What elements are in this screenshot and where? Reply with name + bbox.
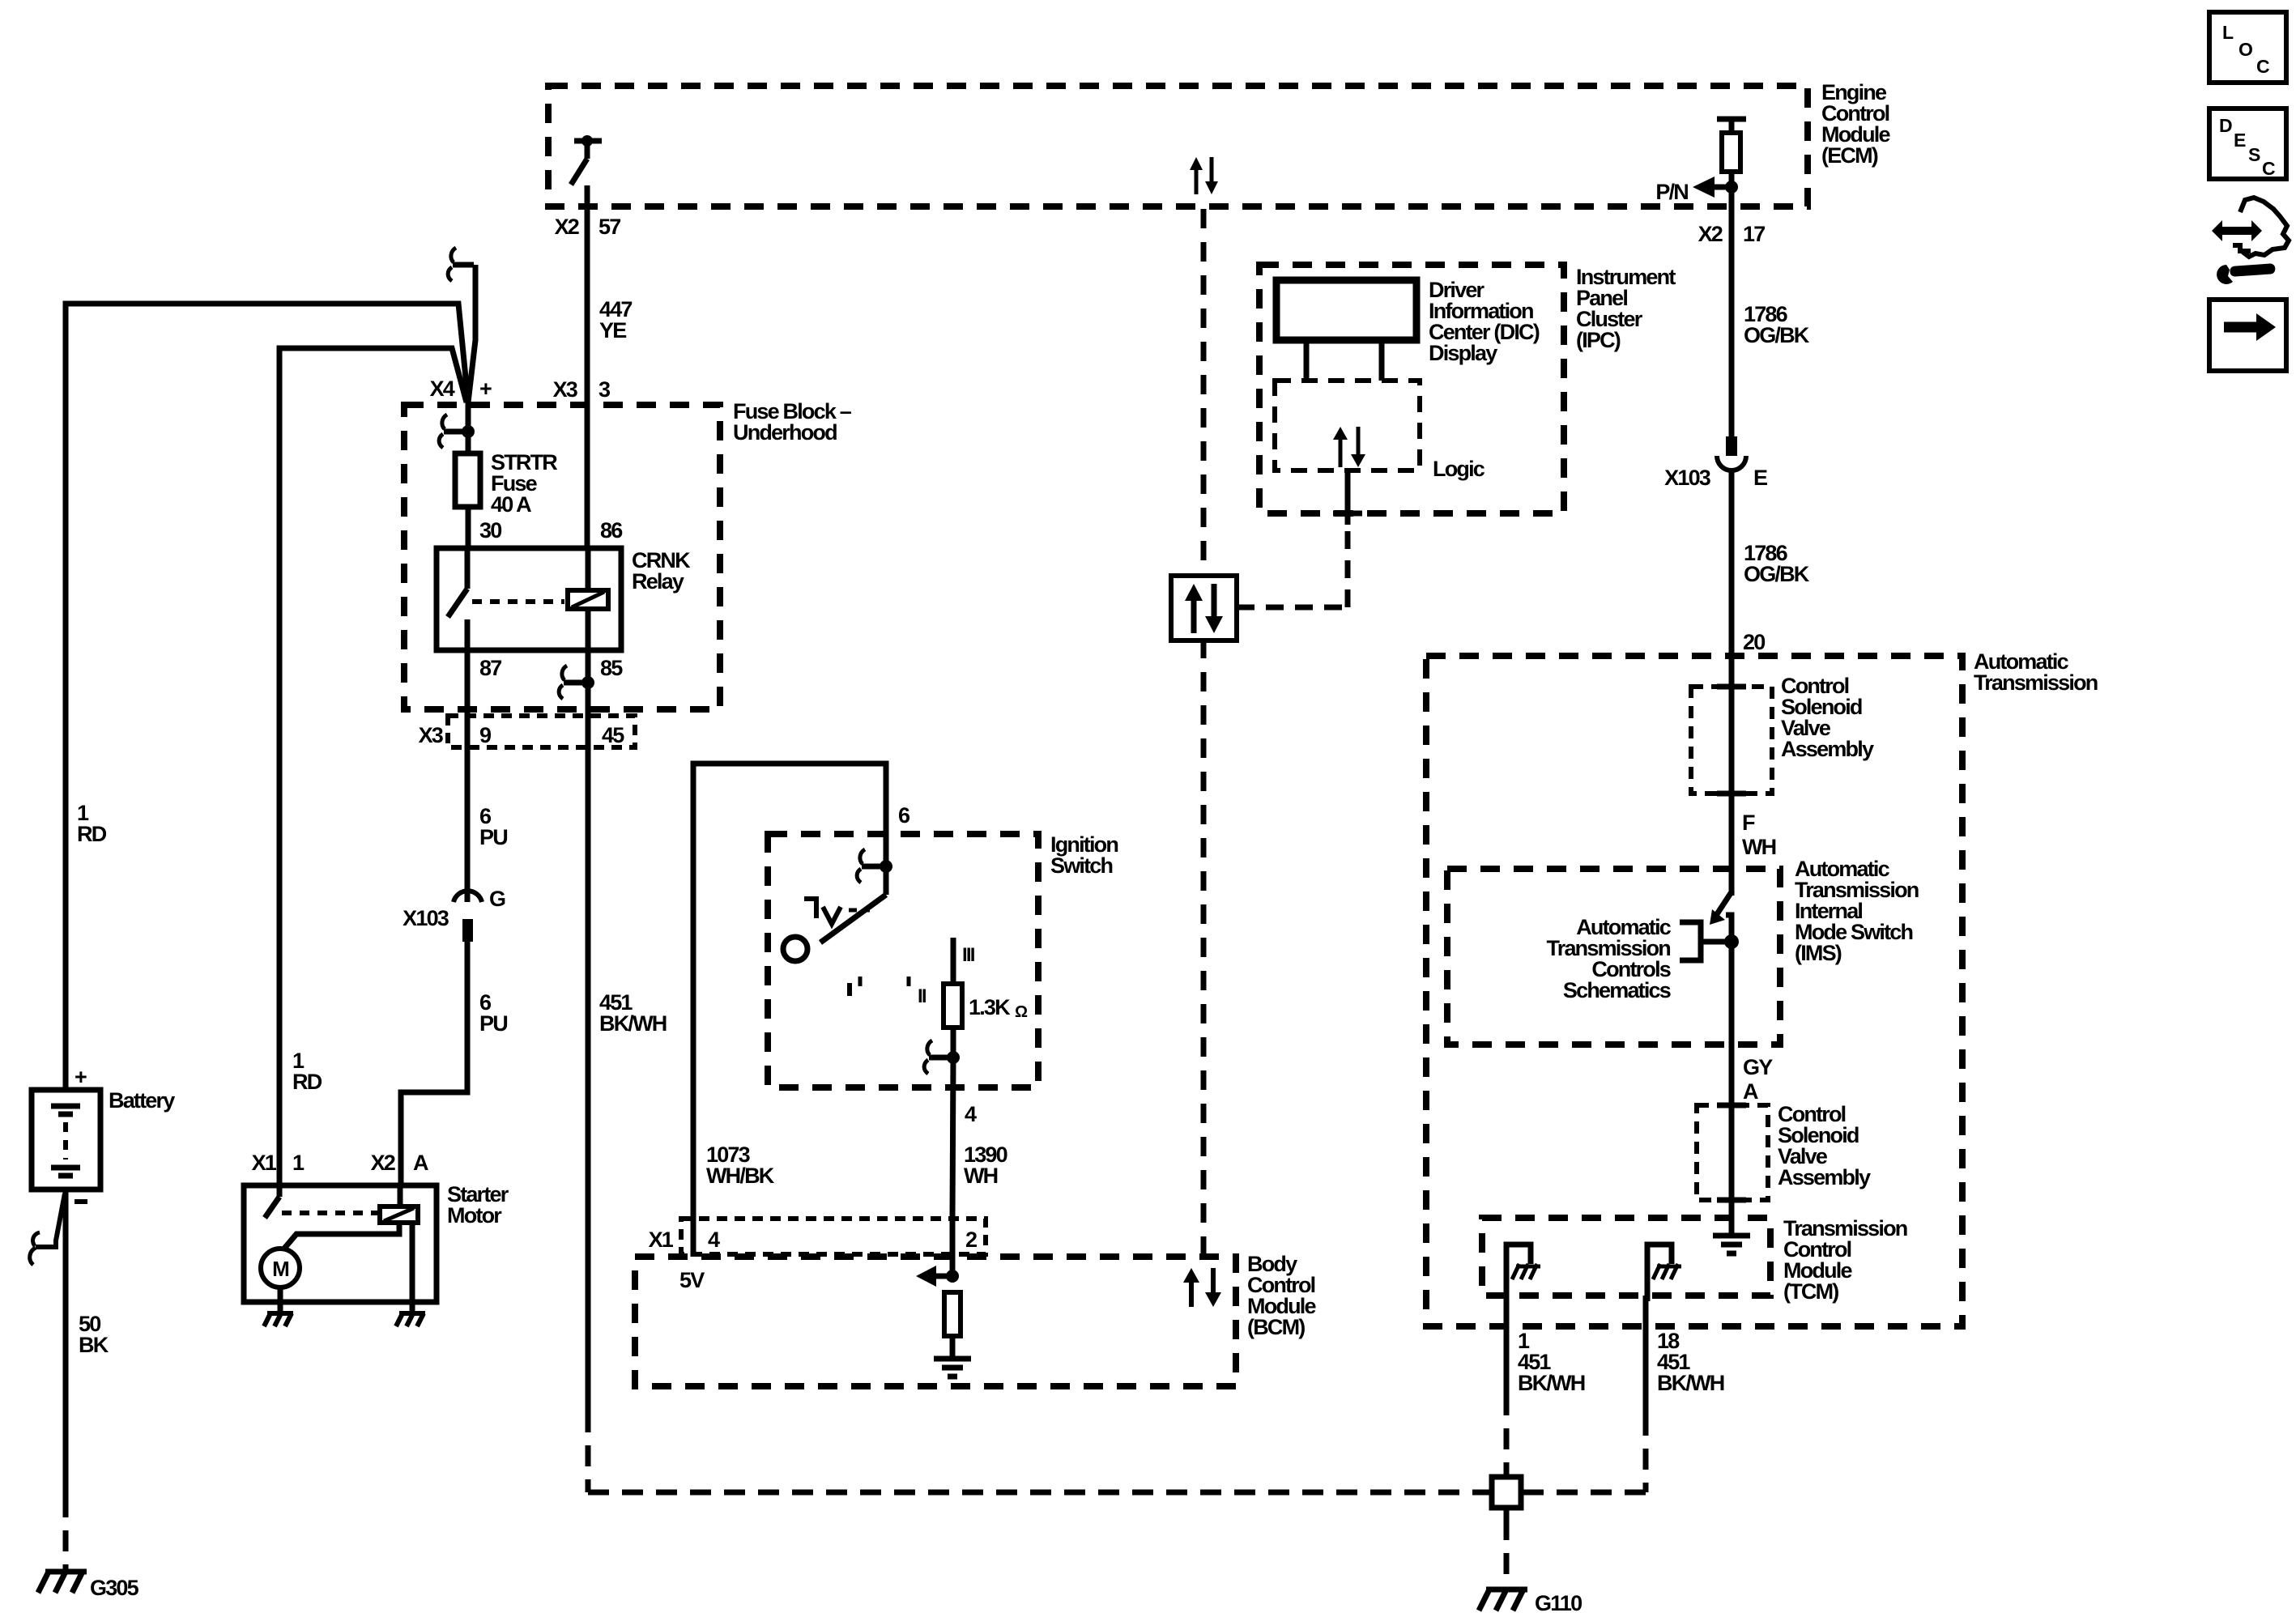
label Fuse Block - Underhood xyxy=(733,399,852,445)
pin label X4 + xyxy=(430,377,492,401)
relay CRNK switch contact xyxy=(448,548,467,650)
svg-text:O: O xyxy=(2238,39,2252,60)
svg-text:A: A xyxy=(413,1151,428,1175)
svg-text:WH: WH xyxy=(1742,835,1776,859)
wire DIC display legs xyxy=(1306,340,1382,381)
svg-text:C: C xyxy=(2262,158,2275,179)
wire through solenoid valve assembly upper xyxy=(1717,687,1746,794)
wire label 6 PU upper xyxy=(479,804,507,849)
wire label 50 BK xyxy=(79,1312,109,1357)
label 1.3K Ohm xyxy=(969,995,1028,1021)
pin label X2 17 xyxy=(1698,222,1766,246)
pin label 1 451 BK/WH xyxy=(1518,1329,1585,1395)
svg-text:(IPC): (IPC) xyxy=(1576,328,1621,352)
svg-text:Transmission: Transmission xyxy=(1974,670,2098,695)
pin label 18 451 BK/WH xyxy=(1657,1329,1724,1395)
serial data arrows at ECM bottom xyxy=(1190,157,1218,194)
wire 451 BK/WH TCM pin 18 xyxy=(1531,1296,1646,1492)
serial data arrows in logic box xyxy=(1333,427,1365,467)
label CRNK Relay xyxy=(632,548,691,594)
svg-text:2: 2 xyxy=(965,1228,977,1252)
control solenoid valve assembly upper dashed box xyxy=(1691,687,1772,794)
ground TCM pin 1 internal xyxy=(1506,1245,1540,1301)
label Logic xyxy=(1433,457,1485,481)
battery xyxy=(32,1090,100,1189)
connector X3 box xyxy=(448,716,635,747)
wire battery feed into fuse block via X4 xyxy=(466,402,471,453)
wire X103-E to transmission xyxy=(1729,470,1735,687)
svg-text:Battery: Battery xyxy=(109,1088,175,1113)
clip connector on wire 85 xyxy=(559,666,594,699)
ignition position mark LOCK xyxy=(804,899,870,924)
wire label 1 RD left xyxy=(77,801,107,846)
wire label 451 BK/WH xyxy=(599,990,667,1036)
svg-text:Assembly: Assembly xyxy=(1778,1165,1871,1189)
wire 1 RD battery positive feed xyxy=(66,304,468,1092)
svg-text:PU: PU xyxy=(479,1011,507,1036)
svg-text:(IMS): (IMS) xyxy=(1795,941,1842,965)
wire 1073 WH/BK loop from BCM X1-4 to ignition switch pin 6 xyxy=(693,764,886,1219)
label Control Solenoid Valve Assembly lower xyxy=(1778,1102,1871,1189)
internal resistor in ECM (P/N pull-up) xyxy=(1717,119,1746,188)
pin label X3 3 xyxy=(553,377,611,402)
starter motor box xyxy=(244,1185,437,1302)
wire serial data branch to IPC logic xyxy=(1237,470,1362,607)
svg-text:X103: X103 xyxy=(1664,466,1711,490)
fuse STRTR 40A xyxy=(455,453,480,507)
ignition switch blade xyxy=(820,866,886,943)
svg-text:RD: RD xyxy=(77,822,107,846)
svg-text:F: F xyxy=(1742,811,1755,835)
wire 447 YE from ECM pin 57 to CRNK relay pin 86 xyxy=(585,185,590,548)
svg-text:87: 87 xyxy=(479,656,501,680)
module IMS dashed box xyxy=(1447,869,1780,1045)
svg-text:+: + xyxy=(75,1065,87,1089)
ignition position mark II xyxy=(909,977,926,1007)
label Driver Information Center DIC Display xyxy=(1429,278,1540,365)
resistor 1.3K Ohm in ignition switch xyxy=(944,938,962,1057)
module TCM dashed box xyxy=(1482,1218,1770,1296)
internal switch in ECM (crank request) xyxy=(571,135,602,185)
ignition position mark III xyxy=(962,944,975,966)
wire 6 PU from X103 to starter solenoid xyxy=(401,942,467,1185)
wire battery tap with clip at top xyxy=(448,248,475,402)
relay CRNK coil xyxy=(568,548,608,650)
label Body Control Module BCM xyxy=(1247,1252,1316,1339)
svg-text:86: 86 xyxy=(600,518,623,543)
starter solenoid coil xyxy=(380,1185,418,1223)
svg-text:5V: 5V xyxy=(679,1268,705,1292)
splice junction box xyxy=(1482,1466,1531,1519)
wire label 1390 WH xyxy=(964,1143,1007,1188)
ground G305 xyxy=(38,1572,139,1600)
svg-text:RD: RD xyxy=(292,1070,322,1094)
svg-text:(ECM): (ECM) xyxy=(1821,143,1878,168)
display DIC box xyxy=(1276,280,1416,340)
connector X1 box BCM xyxy=(681,1219,986,1254)
svg-text:S: S xyxy=(2248,144,2260,165)
clip connector at ignition pin 6 xyxy=(857,849,892,883)
svg-text:57: 57 xyxy=(598,215,620,239)
svg-text:Schematics: Schematics xyxy=(1563,978,1671,1002)
module ECM dashed box xyxy=(548,86,1808,206)
svg-text:X2: X2 xyxy=(555,215,579,239)
wire label 1786 OG/BK upper xyxy=(1744,302,1810,347)
svg-text:6: 6 xyxy=(898,803,910,828)
svg-text:OG/BK: OG/BK xyxy=(1744,323,1810,347)
connector X103 G xyxy=(403,887,505,942)
module IPC dashed box xyxy=(1259,265,1564,513)
pin labels X1 1 X2 A xyxy=(252,1151,428,1175)
svg-text:Logic: Logic xyxy=(1433,457,1485,481)
relay CRNK box xyxy=(437,548,621,650)
forward arrow icon box xyxy=(2209,300,2286,371)
svg-text:L: L xyxy=(2222,22,2234,43)
wire 451 BK/WH from relay 85 X3-45 down xyxy=(586,747,591,1411)
svg-text:G305: G305 xyxy=(90,1576,139,1600)
node sense arrow in BCM xyxy=(916,1266,959,1287)
wire label 1073 WH/BK xyxy=(706,1143,775,1188)
wire 451 BK/WH dashed to splice xyxy=(588,1411,1482,1492)
label ECM xyxy=(1821,80,1890,168)
svg-text:E: E xyxy=(2234,130,2246,151)
wire solenoid to motor xyxy=(283,1223,399,1249)
label Ignition Switch xyxy=(1050,832,1118,878)
serial data gateway box xyxy=(1171,576,1237,640)
label Battery xyxy=(109,1088,175,1113)
control solenoid valve assembly lower dashed box xyxy=(1697,1105,1768,1200)
wire 6 PU from X3-9 to X103 xyxy=(465,747,471,902)
svg-text:BK: BK xyxy=(79,1333,109,1357)
svg-text:M: M xyxy=(272,1257,288,1281)
starter solenoid actuation dashed link xyxy=(282,1211,378,1215)
svg-text:30: 30 xyxy=(479,518,501,543)
label Instrument Panel Cluster IPC xyxy=(1576,265,1676,352)
wire 1 RD starter feed xyxy=(279,348,466,1185)
svg-text:OG/BK: OG/BK xyxy=(1744,562,1810,586)
wire IMS to node A xyxy=(1724,915,1739,1045)
svg-text:Motor: Motor xyxy=(447,1203,502,1228)
pin label 6 ignition xyxy=(898,803,910,828)
clip connector below X4 xyxy=(439,415,475,448)
svg-text:X2: X2 xyxy=(1698,222,1723,246)
module Ignition Switch dashed box xyxy=(768,834,1038,1087)
wire label 6 PU lower xyxy=(479,990,507,1036)
wire relay 87 to X3-9 xyxy=(465,650,471,747)
wire serial data ECM to gateway box xyxy=(1201,209,1207,576)
battery polarity + - xyxy=(75,1065,87,1202)
svg-text:3: 3 xyxy=(598,377,611,402)
logic dashed box in IPC xyxy=(1275,381,1420,470)
svg-text:Ω: Ω xyxy=(1015,1003,1028,1021)
svg-text:P/N: P/N xyxy=(1655,180,1688,204)
resistor pull-down in BCM xyxy=(944,1292,961,1357)
label Automatic Transmission Internal Mode Switch IMS xyxy=(1795,857,1919,965)
svg-text:X1: X1 xyxy=(252,1151,277,1175)
svg-text:9: 9 xyxy=(479,723,492,747)
module Automatic Transmission dashed box xyxy=(1426,656,1962,1326)
wire splice to ground G110 xyxy=(1504,1519,1510,1585)
wire label F WH xyxy=(1742,811,1776,859)
svg-text:II: II xyxy=(918,985,926,1007)
battery negative clamp clip xyxy=(30,1194,65,1265)
wire 451 BK/WH TCM pin 1 to splice xyxy=(1504,1296,1510,1470)
svg-text:Switch: Switch xyxy=(1050,853,1113,878)
svg-text:(TCM): (TCM) xyxy=(1783,1279,1838,1304)
starter motor M xyxy=(261,1249,300,1287)
svg-text:WH/BK: WH/BK xyxy=(706,1164,775,1188)
serial data arrows in BCM xyxy=(1183,1268,1221,1307)
wire label 447 YE xyxy=(599,297,632,343)
ground G110 xyxy=(1479,1589,1582,1615)
module BCM dashed box xyxy=(635,1257,1236,1386)
wire fuse to relay 30 xyxy=(466,507,471,548)
relay CRNK actuation dashed link xyxy=(472,599,564,604)
svg-text:X3: X3 xyxy=(419,723,444,747)
wire through solenoid valve assembly lower xyxy=(1717,1045,1746,1234)
svg-text:(BCM): (BCM) xyxy=(1247,1315,1305,1339)
wire X1-4 into BCM 5V xyxy=(679,1219,705,1292)
DESC navigation icon box xyxy=(2209,109,2286,179)
wire solenoid case ground xyxy=(396,1223,425,1326)
svg-text:1: 1 xyxy=(292,1151,305,1175)
wire 50 BK battery negative xyxy=(63,1189,69,1569)
svg-text:4: 4 xyxy=(965,1102,977,1126)
svg-text:4: 4 xyxy=(708,1228,720,1252)
pin label 20 xyxy=(1743,630,1765,654)
starter solenoid switch contact xyxy=(265,1185,279,1218)
clip connector at ignition pin 4 xyxy=(924,1040,960,1074)
wire label 1786 OG/BK lower xyxy=(1744,541,1810,586)
pin label 4 ignition xyxy=(965,1102,977,1126)
svg-text:X2: X2 xyxy=(371,1151,395,1175)
label Starter Motor xyxy=(447,1182,509,1228)
pin labels X1 4 2 xyxy=(649,1228,977,1252)
svg-text:III: III xyxy=(962,944,975,966)
svg-text:X4: X4 xyxy=(430,377,455,401)
svg-text:BK/WH: BK/WH xyxy=(599,1011,667,1036)
ignition switch pivot xyxy=(783,937,807,961)
svg-text:+: + xyxy=(479,377,492,401)
svg-text:Relay: Relay xyxy=(632,569,684,594)
label Transmission Control Module TCM xyxy=(1783,1216,1907,1304)
connector X103 E xyxy=(1664,436,1767,490)
ignition position mark I xyxy=(850,977,860,996)
svg-text:D: D xyxy=(2219,115,2232,136)
wire F WH to IMS xyxy=(1729,794,1735,896)
svg-text:BK/WH: BK/WH xyxy=(1657,1371,1724,1395)
svg-text:G110: G110 xyxy=(1535,1591,1582,1615)
svg-text:BK/WH: BK/WH xyxy=(1518,1371,1585,1395)
node P/N junction with arrow xyxy=(1655,177,1738,204)
ground internal BCM xyxy=(934,1359,971,1377)
svg-text:Display: Display xyxy=(1429,341,1497,365)
pin labels 87 85 xyxy=(479,656,623,680)
pin labels 30 86 xyxy=(479,518,623,543)
module Fuse Block - Underhood dashed box xyxy=(404,405,720,709)
label Control Solenoid Valve Assembly upper xyxy=(1781,674,1874,761)
svg-text:20: 20 xyxy=(1743,630,1765,654)
wire X1-2 into BCM sense node xyxy=(950,1219,956,1276)
pin label X2 57 xyxy=(555,215,621,239)
label STRTR Fuse 40A xyxy=(491,450,557,517)
ground internal TCM area xyxy=(1713,1236,1750,1253)
svg-text:X3: X3 xyxy=(553,377,578,402)
wire 1390 WH ignition to BCM xyxy=(952,1057,953,1219)
svg-text:G: G xyxy=(489,887,505,911)
pin labels X3 9 45 xyxy=(419,723,625,747)
svg-text:X1: X1 xyxy=(649,1228,674,1252)
serial data arrows in gateway box xyxy=(1185,584,1223,633)
ground TCM pin 18 internal xyxy=(1647,1245,1681,1301)
svg-text:40 A: 40 A xyxy=(491,492,531,517)
svg-text:GY: GY xyxy=(1743,1055,1773,1079)
svg-text:Underhood: Underhood xyxy=(733,420,837,445)
svg-text:E: E xyxy=(1753,466,1767,490)
wire 1786 OG/BK from ECM pin 17 xyxy=(1729,187,1735,436)
switch IMS blade with arrowhead xyxy=(1710,891,1732,925)
svg-text:45: 45 xyxy=(602,723,624,747)
wire motor case ground xyxy=(264,1287,293,1326)
wire serial data gateway to BCM xyxy=(1201,639,1207,1255)
svg-text:YE: YE xyxy=(599,318,626,343)
svg-text:X103: X103 xyxy=(403,906,449,930)
svg-text:Assembly: Assembly xyxy=(1781,737,1874,761)
vehicle diagnostic icon (car with double arrow and wrench) xyxy=(2212,198,2289,284)
svg-text:1.3K: 1.3K xyxy=(969,995,1011,1019)
label bracket Automatic Transmission Controls Schematics xyxy=(1547,915,1727,1002)
wire relay 85 to X3-45 xyxy=(586,650,591,747)
wire label 1 RD right xyxy=(292,1049,322,1094)
label Automatic Transmission xyxy=(1974,649,2098,695)
svg-text:85: 85 xyxy=(600,656,623,680)
svg-text:C: C xyxy=(2256,56,2269,77)
svg-text:17: 17 xyxy=(1743,222,1765,246)
svg-text:WH: WH xyxy=(964,1164,998,1188)
wire label GY A xyxy=(1743,1055,1773,1104)
svg-text:A: A xyxy=(1743,1079,1758,1104)
LOC navigation icon box xyxy=(2209,12,2286,83)
svg-text:PU: PU xyxy=(479,825,507,849)
